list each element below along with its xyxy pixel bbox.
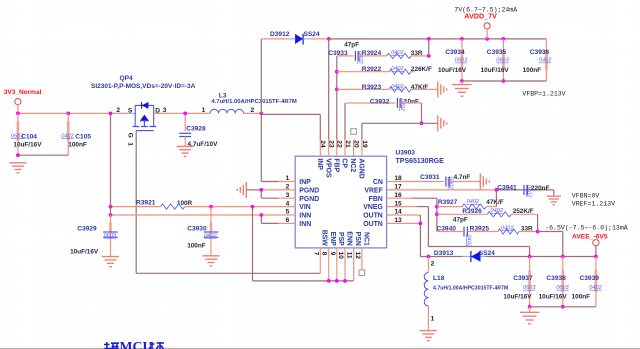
svg-text:0402: 0402 xyxy=(204,233,217,239)
svg-text:R3927: R3927 xyxy=(438,199,458,206)
svg-text:0402: 0402 xyxy=(61,133,74,139)
wire INP to pin24 xyxy=(261,113,320,115)
svg-text:18: 18 xyxy=(394,175,402,182)
pin 19 AGND (top) xyxy=(361,140,363,157)
svg-text:4.7uH/1.00A/HPC3015TF-4R7M: 4.7uH/1.00A/HPC3015TF-4R7M xyxy=(211,99,297,105)
node INP (L3/D3912/U3903) xyxy=(259,112,263,116)
capacitor C105 xyxy=(67,113,69,155)
svg-text:QP4: QP4 xyxy=(120,75,134,82)
svg-text:4.7uH/1.00A/HPC3015TF-4R7M: 4.7uH/1.00A/HPC3015TF-4R7M xyxy=(433,286,508,292)
pin 16 FBN (right) xyxy=(387,197,404,199)
svg-text:PGND: PGND xyxy=(299,196,319,203)
svg-text:G: G xyxy=(127,133,134,138)
svg-text:INN: INN xyxy=(299,221,311,228)
svg-text:C3930: C3930 xyxy=(187,226,207,233)
svg-text:4.7nF: 4.7nF xyxy=(454,174,471,181)
pin 3 PGND (left) xyxy=(279,197,296,199)
node VIN/enable branch xyxy=(251,205,255,209)
svg-text:INN: INN xyxy=(299,213,311,220)
svg-text:C3941: C3941 xyxy=(497,185,517,192)
svg-text:7: 7 xyxy=(312,252,319,256)
svg-text:-6.5V(-7.5~-6.0);13mA: -6.5V(-7.5~-6.0);13mA xyxy=(545,224,628,231)
svg-text:VREF: VREF xyxy=(364,188,382,195)
svg-text:AGND: AGND xyxy=(358,158,365,178)
svg-text:0402: 0402 xyxy=(447,177,453,190)
inductor L18 xyxy=(427,257,429,273)
svg-text:21: 21 xyxy=(344,140,351,148)
terminal 3V3_Normal xyxy=(15,99,21,105)
capacitor C3935 xyxy=(502,39,504,81)
svg-text:0603: 0603 xyxy=(523,285,536,291)
pin 15 VNEG (right) xyxy=(387,206,404,208)
pin 2 PGND (left) xyxy=(279,189,296,191)
svg-text:100nF: 100nF xyxy=(523,67,542,74)
no-connect NC1 (pin 12) xyxy=(361,265,363,270)
svg-text:AVEE_-6V5: AVEE_-6V5 xyxy=(572,233,608,240)
transistor QP4 symbol xyxy=(129,112,135,114)
sheet bottom border xyxy=(0,347,640,349)
capacitor C3937 xyxy=(529,257,531,307)
svg-text:4.7uF/10V: 4.7uF/10V xyxy=(188,141,219,148)
node bus/C3935 xyxy=(502,37,506,41)
svg-text:FBP: FBP xyxy=(332,158,339,172)
ground (AVEE caps) xyxy=(529,307,531,312)
svg-text:TPS65130RGE: TPS65130RGE xyxy=(396,158,445,165)
wire QP4 gate net (to BSW) xyxy=(135,131,137,274)
wire AVDD cap rail xyxy=(462,80,547,82)
svg-text:C3939: C3939 xyxy=(580,275,600,282)
svg-text:6: 6 xyxy=(286,217,290,224)
wire enable rail (ENP/PSP/ENN/PSN) xyxy=(252,207,254,281)
svg-text:220nF: 220nF xyxy=(531,185,550,192)
svg-text:47K/F: 47K/F xyxy=(486,199,503,206)
svg-text:2: 2 xyxy=(431,261,435,268)
svg-text:OUTN: OUTN xyxy=(363,221,383,228)
diode D3913 xyxy=(462,256,471,258)
node INN pins 5/6 xyxy=(259,213,263,217)
pin 24 INP (top) xyxy=(319,140,321,157)
svg-text:10uF/16V: 10uF/16V xyxy=(481,67,510,74)
svg-text:OUTN: OUTN xyxy=(363,213,383,220)
svg-text:INP: INP xyxy=(299,179,311,186)
capacitor C3934 xyxy=(461,39,463,81)
svg-text:C3931: C3931 xyxy=(420,174,440,181)
node 3V3/VIN branch xyxy=(109,112,113,116)
annotation to-MCU-board (Chinese) xyxy=(104,339,164,349)
wire AVEE terminal drop xyxy=(595,245,597,256)
svg-text:4: 4 xyxy=(286,200,290,207)
wire INP riser to D3912 xyxy=(260,39,262,114)
wire L3 to INP node xyxy=(244,112,262,114)
node AVEE/C3937 xyxy=(528,255,532,259)
pin 21 CP (top) xyxy=(344,140,346,157)
svg-text:3V3_Normal: 3V3_Normal xyxy=(4,89,42,96)
svg-text:10nF: 10nF xyxy=(404,99,419,106)
wire R3924 to bus xyxy=(428,39,430,56)
svg-text:D3913: D3913 xyxy=(434,250,454,257)
capacitor C3933 row wire xyxy=(337,55,354,57)
svg-text:NC2: NC2 xyxy=(349,158,356,172)
svg-text:100nF: 100nF xyxy=(68,142,87,149)
svg-text:12: 12 xyxy=(354,252,361,260)
svg-text:0402: 0402 xyxy=(539,58,552,64)
terminal AVDD_7V xyxy=(484,23,490,29)
svg-text:15: 15 xyxy=(394,200,402,207)
wire R3927 to VREF xyxy=(495,190,497,207)
wire VPOS bus xyxy=(329,38,547,40)
wire OUTN pin14 xyxy=(403,214,420,216)
pin 12 NC1 (bottom) xyxy=(361,248,363,265)
svg-text:PSP: PSP xyxy=(337,232,344,246)
svg-text:0603: 0603 xyxy=(104,233,117,239)
node C3928/3V3 drain rail xyxy=(183,112,187,116)
svg-text:47pF: 47pF xyxy=(453,217,468,224)
capacitor C3929 xyxy=(110,215,112,256)
capacitor C3930 xyxy=(210,207,212,256)
pin 7 BSW (bottom) xyxy=(319,248,321,265)
svg-text:5: 5 xyxy=(286,209,290,216)
svg-text:17: 17 xyxy=(394,184,402,191)
svg-text:VFBN=0V: VFBN=0V xyxy=(572,193,600,200)
svg-text:10uF/16V: 10uF/16V xyxy=(438,67,467,74)
svg-text:VNEG: VNEG xyxy=(363,204,383,211)
svg-text:VFBP=1.213V: VFBP=1.213V xyxy=(522,90,565,97)
pin 18 CN (right) xyxy=(387,181,404,183)
svg-text:1: 1 xyxy=(431,316,435,323)
pin 5 INN (left) xyxy=(279,214,296,216)
wire INP to pin1 xyxy=(260,113,262,181)
svg-text:0402: 0402 xyxy=(466,234,472,247)
node C104/C105 bottom xyxy=(16,153,20,157)
svg-text:C3932: C3932 xyxy=(370,99,390,106)
wire R3926 to AVEE xyxy=(537,214,539,231)
svg-text:13: 13 xyxy=(394,217,402,224)
svg-text:1: 1 xyxy=(127,142,134,146)
diode D3912 xyxy=(261,38,287,40)
svg-text:16: 16 xyxy=(394,192,402,199)
pin 14 OUTN (right) xyxy=(387,214,404,216)
node FBP/R3922 xyxy=(335,70,339,74)
svg-text:10uF/16V: 10uF/16V xyxy=(503,294,532,301)
svg-text:CP: CP xyxy=(341,158,348,168)
pin 20 NC2 (top) xyxy=(353,140,355,157)
svg-text:INP: INP xyxy=(316,158,323,170)
svg-text:9: 9 xyxy=(329,252,336,256)
svg-text:NC1: NC1 xyxy=(362,232,369,246)
ground (C3931, rotated) xyxy=(479,174,481,190)
node C3935/rail xyxy=(502,79,506,83)
terminal AVEE_-6V5 xyxy=(593,240,599,246)
node AVEE caps bottom C3938 xyxy=(561,305,565,309)
svg-text:U3903: U3903 xyxy=(396,149,416,156)
node AVEE caps bottom C3937 xyxy=(528,305,532,309)
svg-text:0402: 0402 xyxy=(467,199,480,205)
svg-text:R3924: R3924 xyxy=(362,50,382,57)
pin 10 ENN (bottom) xyxy=(344,248,346,265)
svg-text:VPOS: VPOS xyxy=(324,158,331,178)
node VIN/C3929 xyxy=(109,205,113,209)
wire INN row xyxy=(111,214,279,216)
svg-text:FBN: FBN xyxy=(369,196,383,203)
wire OUTN rail xyxy=(420,256,462,258)
svg-text:C3934: C3934 xyxy=(445,49,465,56)
svg-text:0603: 0603 xyxy=(455,58,468,64)
svg-text:47pF: 47pF xyxy=(344,41,359,48)
svg-text:C3937: C3937 xyxy=(513,275,533,282)
node R3924/VPOS riser xyxy=(427,54,431,58)
node FBN/R3926 xyxy=(435,212,439,216)
svg-text:0402: 0402 xyxy=(589,285,602,291)
wire FBP vertical xyxy=(336,56,338,140)
svg-text:10uF/16V: 10uF/16V xyxy=(70,249,99,256)
svg-text:0603: 0603 xyxy=(496,58,509,64)
wire 3V3 terminal drop xyxy=(17,104,19,113)
svg-text:10uF/16V: 10uF/16V xyxy=(539,294,568,301)
svg-text:C3933: C3933 xyxy=(328,50,348,57)
svg-text:C105: C105 xyxy=(75,134,91,141)
wire FBN net xyxy=(403,197,412,199)
svg-text:2: 2 xyxy=(286,184,290,191)
ground (C3930) xyxy=(203,255,220,257)
svg-text:C3938: C3938 xyxy=(546,275,566,282)
wire AVEE rail xyxy=(486,256,596,258)
ground (PGND, rotated) xyxy=(245,182,247,198)
capacitor C3931 row (CN) xyxy=(403,181,444,183)
node AGND/C3932 xyxy=(420,121,424,125)
svg-text:11: 11 xyxy=(346,252,353,259)
svg-text:22: 22 xyxy=(336,140,343,148)
svg-text:MCU: MCU xyxy=(120,339,153,349)
node ENP xyxy=(327,279,331,283)
capacitor C3939 xyxy=(595,257,597,307)
wire QP4 drain to L3 xyxy=(154,112,211,114)
capacitor C3938 xyxy=(562,257,564,307)
svg-text:SI2301-P,P-MOS,VDs=-20V·ID=-3A: SI2301-P,P-MOS,VDs=-20V·ID=-3A xyxy=(91,83,196,90)
ground (C3929) xyxy=(102,256,119,258)
node VPOS bus / C3933 branch xyxy=(327,37,331,41)
svg-text:CN: CN xyxy=(373,179,383,186)
pin 4 VIN (left) xyxy=(279,206,296,208)
node bus/R3924 xyxy=(427,37,431,41)
pin 6 INN (left) xyxy=(279,222,296,224)
ground (R3923, rotated) xyxy=(437,81,439,97)
svg-text:ENP: ENP xyxy=(329,232,336,247)
svg-text:BSW: BSW xyxy=(321,230,328,247)
wire AGND xyxy=(361,123,363,139)
svg-text:0603: 0603 xyxy=(556,285,569,291)
svg-text:20: 20 xyxy=(353,140,360,148)
svg-text:100R: 100R xyxy=(177,200,193,207)
node AVEE/C3938 xyxy=(561,255,565,259)
node AVEE/terminal xyxy=(594,255,598,259)
node VIN/C3930 xyxy=(209,205,213,209)
svg-text:C3935: C3935 xyxy=(487,49,507,56)
svg-text:ENN: ENN xyxy=(345,231,352,246)
pin 9 PSP (bottom) xyxy=(336,248,338,265)
svg-text:C3936: C3936 xyxy=(530,49,550,56)
svg-text:1: 1 xyxy=(202,107,206,114)
svg-text:100nF: 100nF xyxy=(187,242,206,249)
pin 8 ENP (bottom) xyxy=(328,248,330,265)
svg-text:1: 1 xyxy=(286,175,290,182)
svg-text:10: 10 xyxy=(337,252,344,260)
svg-text:SS24: SS24 xyxy=(304,31,320,38)
wire 3V3 rail xyxy=(18,112,129,114)
ground (C3941) xyxy=(547,195,561,197)
wire 3V3 to VIN/INN rows xyxy=(110,113,112,215)
svg-text:R3922: R3922 xyxy=(362,66,382,73)
wire VNEG net xyxy=(403,206,417,208)
node PGND pins 2/3 xyxy=(259,188,263,192)
pin 17 VREF (right) xyxy=(387,189,404,191)
svg-text:SS24: SS24 xyxy=(479,250,495,257)
ground (AGND, rotated) xyxy=(437,115,439,131)
wire PGND xyxy=(246,189,261,191)
capacitor C3936 xyxy=(545,39,547,81)
svg-text:C3929: C3929 xyxy=(77,226,97,233)
svg-text:R3921: R3921 xyxy=(136,199,156,206)
svg-text:L18: L18 xyxy=(433,275,445,282)
pin 13 OUTN (right) xyxy=(387,222,404,224)
ground (L18) xyxy=(420,330,437,332)
ground G1 (3V3 caps) xyxy=(9,162,26,164)
node FBN/R3927 xyxy=(435,205,439,209)
resistor R3922 xyxy=(337,71,389,73)
svg-text:C3928: C3928 xyxy=(186,125,206,132)
pin 11 PSN (bottom) xyxy=(353,248,355,265)
svg-text:19: 19 xyxy=(361,140,368,148)
capacitor C3928 xyxy=(184,113,186,131)
svg-text:VREF=1.213V: VREF=1.213V xyxy=(572,200,615,207)
node bus/C3934 xyxy=(460,37,464,41)
node PSP xyxy=(335,279,339,283)
svg-text:8: 8 xyxy=(321,252,328,256)
svg-text:10uF/16V: 10uF/16V xyxy=(13,142,42,149)
wire OUTN pin13 xyxy=(403,222,420,224)
wire C3932 drop to AGND net xyxy=(421,103,423,123)
no-connect NC2 (pin 20) xyxy=(351,129,357,135)
wire AVEE feed xyxy=(538,231,563,233)
op-amp U3903 TPS65130RGE box xyxy=(295,156,386,248)
svg-text:PSN: PSN xyxy=(354,232,361,246)
svg-text:D3912: D3912 xyxy=(270,31,290,38)
pin 1 INP (left) xyxy=(279,181,296,183)
pin 23 VPOS (top) xyxy=(328,140,330,157)
svg-text:3: 3 xyxy=(286,192,290,199)
svg-text:2: 2 xyxy=(116,107,120,114)
wire CP riser xyxy=(344,103,346,140)
svg-text:14: 14 xyxy=(394,209,402,216)
svg-text:AVDD_7V: AVDD_7V xyxy=(464,12,497,21)
svg-text:R3923: R3923 xyxy=(362,84,382,91)
svg-text:100nF: 100nF xyxy=(572,294,591,301)
node R3925/R3926/AVEE xyxy=(536,230,540,234)
node ENN xyxy=(343,279,347,283)
node 3V3/C104 xyxy=(16,112,20,116)
wire AVDD drop xyxy=(486,28,488,39)
inductor L3 symbol xyxy=(210,109,243,113)
node OUTN pins 13/14 xyxy=(419,222,423,226)
node 3V3/C105 xyxy=(66,112,70,116)
svg-text:VIN: VIN xyxy=(299,204,311,211)
ground (C3928) xyxy=(177,145,194,147)
wire VREF row xyxy=(403,189,496,191)
wire VPOS pin riser xyxy=(328,39,330,140)
pin 22 FBP (top) xyxy=(336,140,338,157)
svg-text:PGND: PGND xyxy=(299,188,319,195)
node INN/C3929 drop xyxy=(109,213,113,217)
node C3934/rail xyxy=(460,79,464,83)
svg-text:C104: C104 xyxy=(21,134,37,141)
wire VREF to ground xyxy=(553,190,555,196)
svg-text:23: 23 xyxy=(328,140,335,148)
node bus/AVDD xyxy=(485,37,489,41)
resistor R3923 xyxy=(337,88,389,90)
wire AVEE caps bottom rail xyxy=(530,306,596,308)
ground (AVDD caps) xyxy=(461,81,463,84)
capacitor C104 xyxy=(17,113,19,155)
node VREF/R3927 xyxy=(495,188,499,192)
node FBP/R3923 xyxy=(335,88,339,92)
wire VNEG sense to AVEE rail xyxy=(428,246,529,248)
node OUTN/L18 xyxy=(427,255,431,259)
svg-text:24: 24 xyxy=(319,140,326,148)
